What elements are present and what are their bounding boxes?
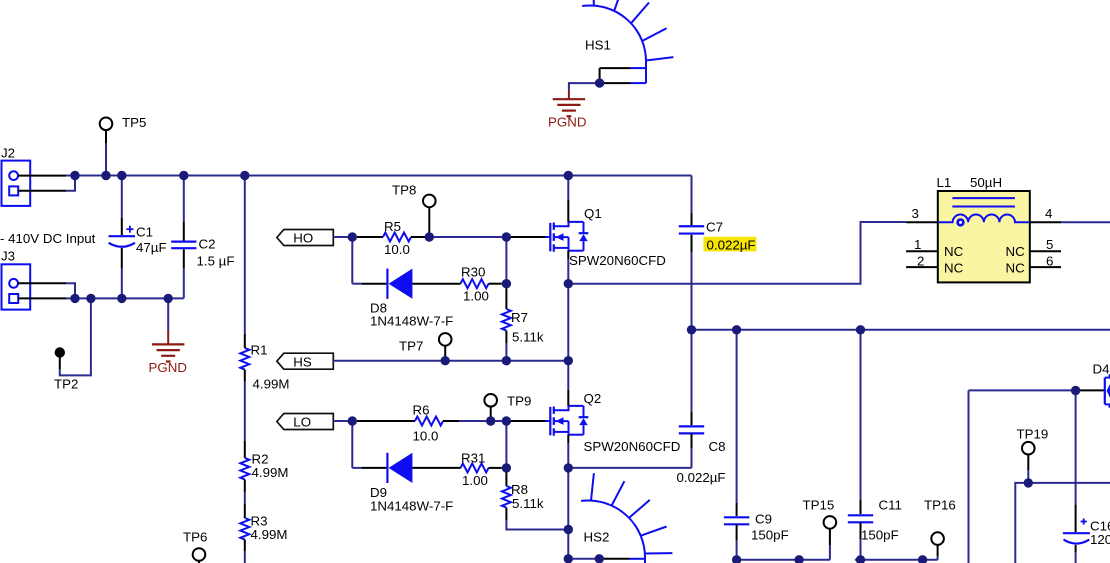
- svg-text:TP19: TP19: [1017, 427, 1049, 442]
- wire R31 to node: [489, 467, 502, 469]
- svg-text:Q1: Q1: [584, 206, 602, 221]
- svg-text:NC: NC: [1006, 260, 1026, 275]
- wire D8 branch horizontal: [352, 283, 362, 285]
- wire J3 pin1 elbow to PGND bus: [66, 283, 75, 298]
- svg-text:L1: L1: [937, 175, 952, 190]
- J2 pin 2 lead: [18, 190, 66, 192]
- heatsink HS1: [582, 0, 673, 83]
- junction TP7 node: [441, 356, 450, 365]
- svg-text:5.11k: 5.11k: [512, 496, 544, 511]
- Q2 drain lead: [567, 361, 569, 390]
- J3 pin 2 lead: [18, 297, 66, 299]
- svg-text:0.022µF: 0.022µF: [707, 237, 756, 252]
- wire R8 bottom elbow: [505, 508, 507, 520]
- svg-text:HS2: HS2: [584, 530, 610, 545]
- wire Q2 source node vertical to HS2: [567, 468, 569, 563]
- L1 pin 6: [1030, 266, 1061, 268]
- svg-text:1N4148W-7-F: 1N4148W-7-F: [370, 498, 453, 513]
- junction top bus at Q1 drain: [564, 171, 573, 180]
- svg-text:4.99M: 4.99M: [251, 527, 288, 542]
- junction y330 bus at C11: [856, 325, 865, 334]
- capacitor C16 (polarized): [1063, 518, 1090, 543]
- junction TP19 node: [1024, 478, 1033, 487]
- TP9 stem: [490, 407, 492, 421]
- Q1 drain lead: [567, 176, 569, 201]
- power ground PGND left: [167, 298, 169, 330]
- capacitor C2: [171, 241, 196, 243]
- test point TP5: [100, 118, 113, 131]
- diode D9: [387, 453, 412, 483]
- test point TP6: [193, 548, 206, 561]
- wire Q1 gate lead: [506, 236, 545, 238]
- svg-text:TP2: TP2: [54, 377, 78, 392]
- svg-text:HO: HO: [293, 231, 313, 246]
- net flag HO: [277, 230, 333, 246]
- svg-text:5.11k: 5.11k: [512, 329, 544, 344]
- junction PGND bus at ground: [164, 294, 173, 303]
- junction bottom bus left: [794, 555, 803, 563]
- test point TP7: [439, 333, 452, 346]
- svg-text:120µF: 120µF: [1090, 532, 1110, 547]
- wire R5 to TP8 node: [411, 236, 429, 238]
- svg-text:PGND: PGND: [149, 360, 187, 375]
- svg-text:TP5: TP5: [122, 115, 146, 130]
- L1 pin 5: [1030, 250, 1061, 252]
- wire J3 pin2 to PGND bus: [66, 297, 75, 299]
- wire HO flag to node: [333, 236, 352, 238]
- capacitor C8: [691, 412, 693, 425]
- junction top bus at C1: [117, 171, 126, 180]
- junction HO node: [348, 232, 357, 241]
- svg-text:SPW20N60CFD: SPW20N60CFD: [569, 253, 666, 268]
- TP19 stem: [1027, 455, 1029, 470]
- svg-text:1.5 µF: 1.5 µF: [197, 254, 235, 269]
- svg-text:TP6: TP6: [183, 529, 207, 544]
- junction TP8 node: [425, 232, 434, 241]
- TP8 stem: [428, 207, 430, 237]
- inductor L1: [938, 191, 1030, 282]
- wire LO node down to D9 branch: [351, 421, 353, 468]
- capacitor C1 (polarized): [109, 226, 135, 247]
- C8 bottom lead: [691, 434, 693, 448]
- resistor R8: [502, 486, 511, 508]
- resistor R30: [461, 279, 489, 288]
- wire gate node to R31 node: [505, 421, 507, 468]
- transistor Q2: [546, 406, 589, 436]
- capacitor C11: [848, 514, 873, 516]
- svg-text:HS: HS: [293, 354, 312, 369]
- J2 pin 1 lead: [18, 175, 66, 177]
- wire HO node down to D8 branch: [351, 237, 353, 284]
- wire TP2 stem and elbow to PGND bus: [59, 358, 61, 370]
- svg-text:C2: C2: [199, 237, 216, 252]
- capacitor C16 lead top: [1075, 390, 1077, 505]
- C7 value highlight: [704, 237, 757, 252]
- test point TP8: [423, 195, 436, 208]
- Q2 source lead: [567, 435, 569, 443]
- junction PGND bus at TP2: [86, 294, 95, 303]
- svg-text:Q2: Q2: [584, 391, 602, 406]
- svg-text:R1: R1: [251, 343, 268, 358]
- C7 leads: [691, 213, 693, 225]
- wire HS1 to PGND: [569, 83, 600, 90]
- svg-text:NC: NC: [1006, 244, 1026, 259]
- svg-text:PGND: PGND: [548, 115, 586, 130]
- wire LO line R6 lead: [357, 420, 415, 422]
- junction PGND bus at C1: [117, 294, 126, 303]
- junction R7 node: [502, 356, 511, 365]
- wire R1 to R2: [244, 370, 246, 381]
- wire PGND bottom bus: [75, 297, 184, 299]
- wire R31 node to R8: [505, 468, 507, 486]
- svg-text:R5: R5: [384, 219, 401, 234]
- heatsink HS2: [581, 473, 672, 563]
- junction TP9 node: [486, 416, 495, 425]
- resistor R7: [502, 309, 511, 331]
- resistor R31: [461, 463, 489, 472]
- svg-text:J2: J2: [1, 146, 15, 161]
- L1 pin 3: [906, 221, 938, 223]
- wire R30 to node: [489, 283, 502, 285]
- junction bottom bus at C9: [732, 555, 741, 563]
- junction Q1 gate node: [502, 232, 511, 241]
- wire top bus corner down to C7 column: [691, 176, 693, 214]
- svg-text:D4: D4: [1093, 362, 1110, 377]
- wire R3 bottom: [244, 540, 246, 551]
- junction Q2 source node: [564, 463, 573, 472]
- resistor R2: [240, 458, 249, 480]
- svg-text:TP7: TP7: [399, 338, 423, 353]
- TP16 stem: [937, 545, 939, 556]
- junction top bus at C2: [179, 171, 188, 180]
- capacitor C9: [724, 516, 749, 518]
- svg-text:150pF: 150pF: [751, 528, 789, 543]
- junction LO node: [348, 416, 357, 425]
- svg-text:C1: C1: [136, 225, 153, 240]
- svg-text:2: 2: [917, 254, 924, 269]
- wire secondary ground bus y330: [692, 329, 1110, 331]
- svg-text:150pF: 150pF: [861, 528, 899, 543]
- wire R30 node to R7: [505, 284, 507, 309]
- wire TP5 stem: [105, 130, 107, 143]
- svg-text:J3: J3: [1, 249, 15, 264]
- svg-text:R8: R8: [511, 482, 528, 497]
- resistor chain R1 R2 R3 wire: [244, 176, 246, 335]
- test point TP9: [484, 394, 497, 407]
- L1 pin 2: [906, 266, 938, 268]
- transistor Q1: [546, 222, 589, 252]
- svg-text:4: 4: [1045, 206, 1052, 221]
- wire D9 to R31: [412, 467, 460, 469]
- wire TP19 net: [1015, 483, 1110, 563]
- resistor R1: [240, 348, 249, 370]
- connector J2: [2, 161, 31, 206]
- wire secondary return horizontal to D4: [969, 389, 1076, 391]
- svg-text:1: 1: [914, 237, 921, 252]
- test point TP16: [931, 532, 944, 545]
- junction HS2 node left: [564, 554, 573, 563]
- TP15 stem: [829, 529, 831, 545]
- svg-text:R30: R30: [461, 265, 485, 280]
- HS2 bracket lead: [599, 558, 629, 560]
- svg-text:C11: C11: [879, 498, 902, 513]
- svg-text:0.022µF: 0.022µF: [677, 470, 726, 485]
- svg-text:TP15: TP15: [803, 498, 835, 513]
- wire L1 pin4 out: [1061, 221, 1110, 223]
- svg-text:LO: LO: [293, 415, 311, 430]
- wire D4 lead: [1076, 389, 1105, 391]
- C16 bottom lead: [1075, 545, 1077, 552]
- svg-text:10.0: 10.0: [413, 428, 439, 443]
- capacitor C11 leads: [860, 330, 862, 500]
- junction bottom bus right: [918, 555, 927, 563]
- svg-text:C8: C8: [709, 439, 726, 454]
- junction HS mid node: [564, 356, 573, 365]
- C1 leads: [121, 176, 123, 219]
- resistor R3: [240, 518, 249, 540]
- svg-text:NC: NC: [944, 260, 964, 275]
- wire HS2 bottom connection: [568, 558, 599, 560]
- junction HS2 bracket: [595, 554, 604, 563]
- wire R6 to TP9 node: [443, 420, 459, 422]
- svg-text:1.00: 1.00: [463, 288, 489, 303]
- J3 pin 1 lead: [18, 282, 66, 284]
- svg-text:SPW20N60CFD: SPW20N60CFD: [584, 439, 681, 454]
- svg-text:TP8: TP8: [392, 182, 416, 197]
- svg-text:HS1: HS1: [585, 38, 611, 53]
- svg-text:50µH: 50µH: [970, 175, 1002, 190]
- connector J3: [2, 264, 31, 309]
- power ground PGND top: [568, 91, 570, 99]
- junction R31 node: [502, 463, 511, 472]
- test point TP15: [824, 516, 837, 529]
- svg-text:10.0: 10.0: [384, 242, 410, 257]
- svg-text:47µF: 47µF: [136, 240, 167, 255]
- wire bottom bus C11 TP16: [855, 559, 938, 561]
- svg-text:C7: C7: [706, 220, 723, 235]
- resistor R5: [383, 233, 411, 242]
- svg-text:3: 3: [912, 206, 919, 221]
- TP6 stem: [198, 561, 200, 563]
- capacitor C9 leads: [736, 330, 738, 503]
- wire R7 to HS line: [505, 331, 507, 343]
- svg-text:6: 6: [1046, 254, 1053, 269]
- junction Q1 source node: [564, 279, 573, 288]
- C7 plates: [679, 225, 704, 227]
- net flag LO: [277, 414, 333, 430]
- wire TP8 node to gate node: [429, 236, 506, 238]
- net flag HS: [277, 353, 333, 369]
- resistor R6: [415, 417, 443, 426]
- diode D8: [387, 269, 412, 299]
- svg-text:1N4148W-7-F: 1N4148W-7-F: [370, 313, 453, 328]
- junction R30 node: [502, 279, 511, 288]
- wire LO flag to node: [333, 420, 352, 422]
- wire J2 pin2 elbow to bus: [66, 176, 75, 191]
- svg-text:- 410V DC Input: - 410V DC Input: [0, 231, 96, 246]
- junction top bus at R1: [240, 171, 249, 180]
- junction R8 elbow node: [564, 525, 573, 534]
- svg-text:R31: R31: [461, 450, 485, 465]
- C2 leads: [183, 176, 185, 223]
- svg-text:NC: NC: [944, 244, 964, 259]
- diode D4 (edge): [1105, 374, 1110, 408]
- junction y330 bus at C9: [732, 325, 741, 334]
- wire gate node to R30 node: [505, 237, 507, 284]
- L1 pin 4: [1030, 221, 1061, 223]
- wire HO line R5 leads: [357, 236, 383, 238]
- wire C7 to C8: [691, 235, 693, 252]
- wire switch node to L1 pin3: [568, 222, 906, 284]
- test point TP19: [1022, 442, 1035, 455]
- test point TP2: [55, 347, 65, 357]
- svg-text:C9: C9: [755, 512, 772, 527]
- svg-text:R7: R7: [511, 310, 528, 325]
- junction top bus at J2: [70, 171, 79, 180]
- wire HS line: [333, 360, 568, 362]
- junction top bus at TP5: [101, 171, 110, 180]
- svg-text:5: 5: [1046, 237, 1053, 252]
- wire R2 to R3: [244, 480, 246, 493]
- L1 pin 1: [906, 250, 938, 252]
- Q1 source lead: [567, 251, 569, 259]
- wire Q2 gate lead: [506, 420, 545, 422]
- svg-text:R6: R6: [413, 402, 430, 417]
- HS1 mounting bracket: [600, 67, 631, 69]
- wire D9 branch horizontal: [352, 467, 362, 469]
- junction y330 bus at C7C8: [687, 325, 696, 334]
- wire TP9 node to gate node: [459, 420, 506, 422]
- junction PGND bus at J3: [70, 294, 79, 303]
- svg-text:4.99M: 4.99M: [252, 465, 289, 480]
- svg-text:TP9: TP9: [507, 393, 531, 408]
- wire Q2 source to C8 corner: [568, 467, 691, 469]
- TP7 stem: [444, 346, 446, 361]
- wire main top bus (-410V rail): [66, 175, 692, 177]
- svg-text:4.99M: 4.99M: [253, 377, 290, 392]
- junction D4 node: [1071, 386, 1080, 395]
- svg-text:TP16: TP16: [924, 498, 956, 513]
- svg-text:1.00: 1.00: [462, 473, 488, 488]
- wire secondary return vertical: [968, 390, 970, 563]
- junction bottom bus at C11: [856, 555, 865, 563]
- wire D8 to R30: [412, 283, 460, 285]
- wire half-bridge mid vertical: [567, 284, 569, 361]
- junction HS1 bracket: [595, 78, 604, 87]
- junction Q2 gate node: [502, 416, 511, 425]
- wire bottom bus C9 TP15: [737, 559, 830, 561]
